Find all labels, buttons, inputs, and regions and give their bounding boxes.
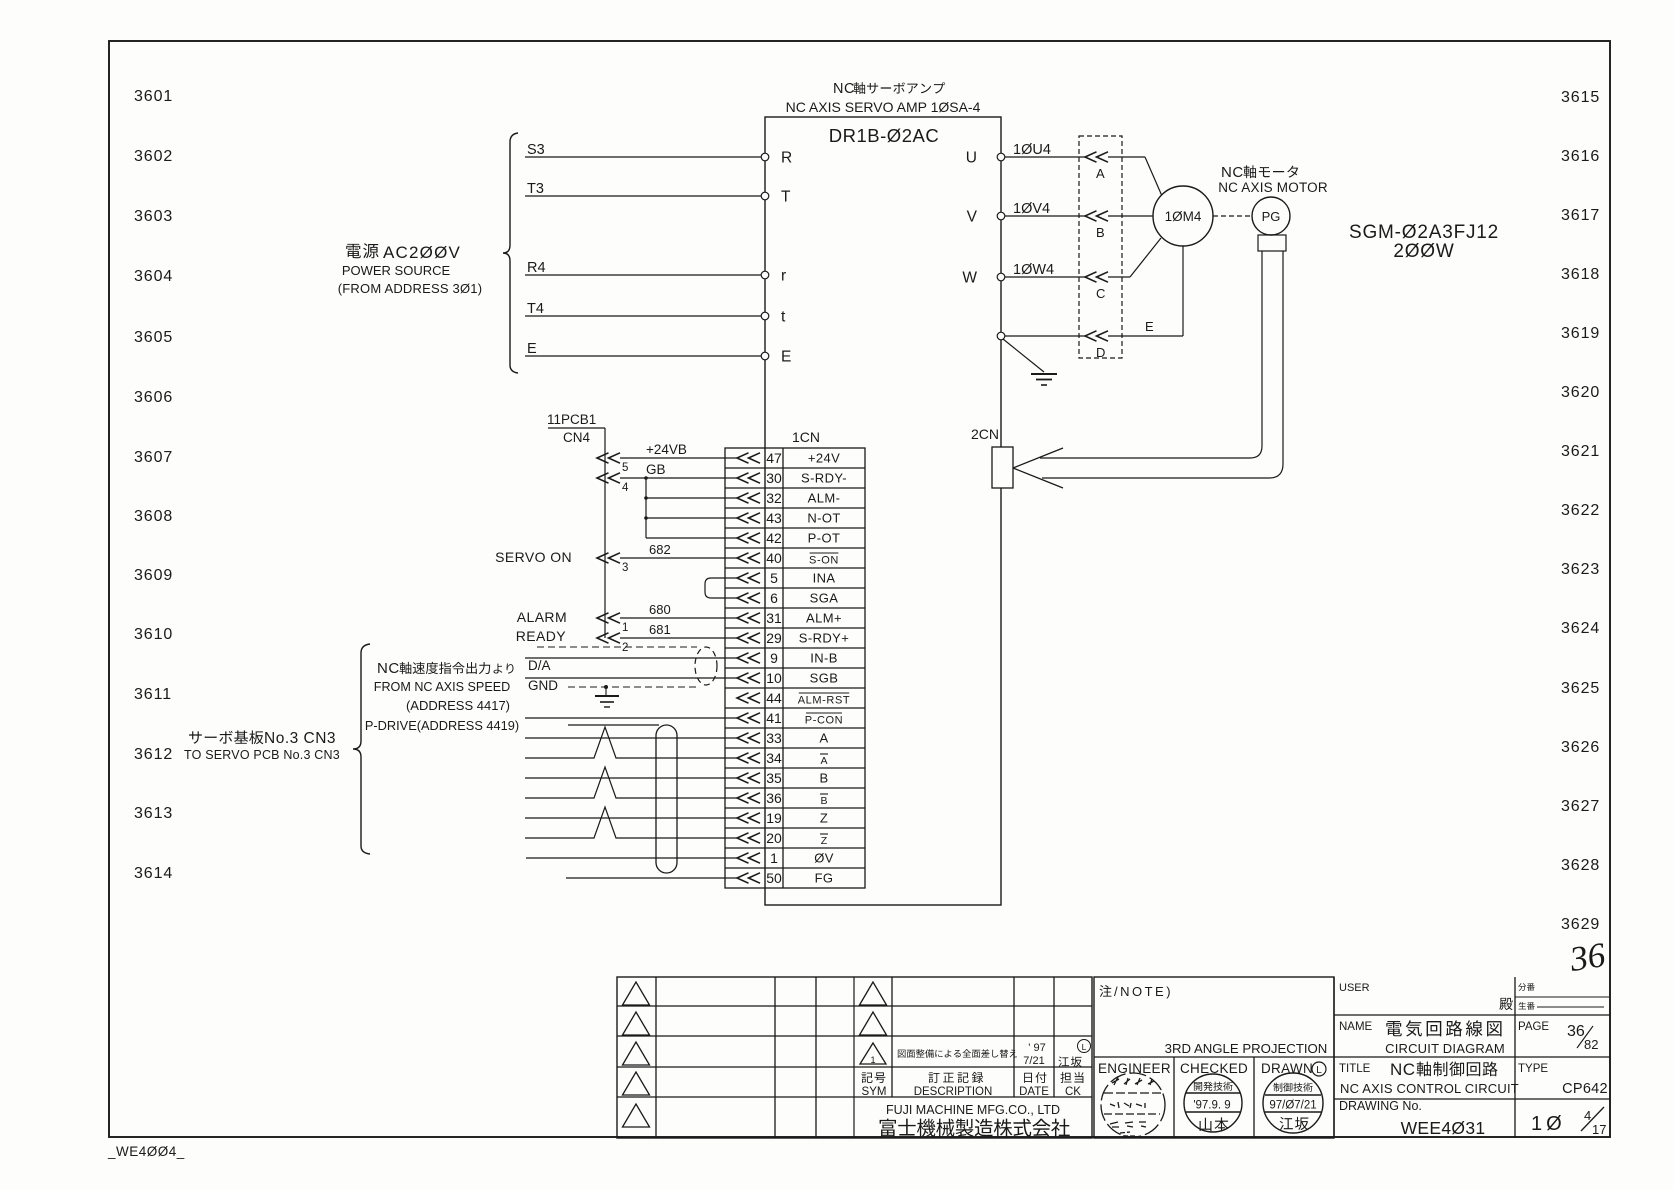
wire R4 to amp <box>525 274 761 276</box>
svg-text:ALM-: ALM- <box>808 491 841 506</box>
svg-text:t: t <box>781 309 786 326</box>
svg-text:'97.9. 9: '97.9. 9 <box>1193 1100 1230 1112</box>
revision triangle L2 <box>623 1012 650 1035</box>
svg-text:7/21: 7/21 <box>1023 1055 1044 1067</box>
ground (amp earth) <box>1003 339 1044 372</box>
svg-text:682: 682 <box>649 542 671 557</box>
svg-text:17: 17 <box>1592 1122 1606 1137</box>
svg-text:DESCRIPTION: DESCRIPTION <box>914 1086 993 1098</box>
wire T3 to amp <box>525 195 761 197</box>
svg-text:42: 42 <box>766 530 782 546</box>
wire 10W4 (W phase) <box>1005 276 1085 278</box>
CN4 pin 3 arrow (682) <box>597 553 620 563</box>
wire to pin 32 ALM- <box>646 497 737 499</box>
svg-text:4: 4 <box>622 482 629 494</box>
svg-text:3628: 3628 <box>1561 857 1600 874</box>
svg-text:ALM-RST: ALM-RST <box>798 695 850 707</box>
company name Japanese <box>880 1119 896 1137</box>
header CK column <box>1060 1072 1071 1083</box>
svg-text:1Ø: 1Ø <box>1531 1113 1566 1135</box>
revision triangle L3 <box>623 1042 650 1065</box>
svg-text:V: V <box>967 209 978 226</box>
svg-text:3604: 3604 <box>134 268 173 285</box>
wire 0V to pin 1 <box>526 857 737 859</box>
revision 1 entry: warning triangle <box>860 1043 886 1064</box>
svg-text:5: 5 <box>622 462 628 474</box>
1CN pin 6 SGA <box>737 593 760 603</box>
revision triangle L1 <box>623 982 650 1005</box>
svg-text:Z: Z <box>821 835 828 847</box>
svg-text:19: 19 <box>766 810 782 826</box>
svg-text:1ØM4: 1ØM4 <box>1165 209 1202 224</box>
1CN pin 32 ALM- <box>737 493 760 503</box>
svg-text:B: B <box>820 795 827 807</box>
svg-text:36: 36 <box>1566 935 1608 979</box>
svg-text:NAME: NAME <box>1339 1021 1373 1033</box>
1CN pin 34 A (active low) <box>737 753 760 763</box>
svg-text:5: 5 <box>770 570 778 586</box>
terminal strip A-D (dashed box) <box>1079 136 1122 358</box>
label servo board No.3 CN3 (Japanese) <box>189 731 202 743</box>
svg-text:SGA: SGA <box>810 591 839 606</box>
svg-text:3626: 3626 <box>1561 739 1600 756</box>
svg-text:CK: CK <box>1065 1086 1081 1098</box>
svg-text:2CN: 2CN <box>971 426 999 442</box>
motor terminal C arrow <box>1085 272 1108 282</box>
svg-text:31: 31 <box>766 610 782 626</box>
revision 1 CK stamp <box>1078 1040 1091 1053</box>
svg-text:GB: GB <box>646 462 666 477</box>
svg-text:USER: USER <box>1339 982 1370 994</box>
svg-text:S-ON: S-ON <box>809 555 839 567</box>
svg-text:FROM NC AXIS SPEED: FROM NC AXIS SPEED <box>374 680 510 694</box>
pin r (amp input) <box>761 271 769 279</box>
svg-text:IN-B: IN-B <box>810 651 838 666</box>
svg-text:+24V: +24V <box>808 451 840 466</box>
svg-text:TYPE: TYPE <box>1518 1063 1548 1075</box>
svg-text:3622: 3622 <box>1561 502 1600 519</box>
svg-text:(ADDRESS 4417): (ADDRESS 4417) <box>406 698 510 713</box>
svg-text:SERVO ON: SERVO ON <box>495 549 572 565</box>
svg-text:3608: 3608 <box>134 508 173 525</box>
svg-text:3609: 3609 <box>134 567 173 584</box>
wire 682 SERVO ON (pin 40) <box>620 557 737 559</box>
svg-text:1: 1 <box>622 622 628 634</box>
ground (shield) <box>604 685 608 689</box>
wire 10V4 (V phase) <box>1005 215 1085 217</box>
motor terminal A arrow <box>1085 152 1108 162</box>
svg-text:E: E <box>781 349 791 366</box>
svg-text:3602: 3602 <box>134 148 173 165</box>
wire to pin 10 SGB <box>525 677 737 679</box>
svg-text:43: 43 <box>766 510 782 526</box>
svg-text:POWER SOURCE: POWER SOURCE <box>342 263 451 278</box>
wire /B to pin 36 (twisted) <box>525 767 737 798</box>
svg-text:P-DRIVE(ADDRESS 4419): P-DRIVE(ADDRESS 4419) <box>365 718 519 733</box>
svg-text:30: 30 <box>766 470 782 486</box>
wire 681 READY (pin 29) <box>620 637 737 639</box>
svg-text:T4: T4 <box>527 301 544 317</box>
wire B to pin 35 <box>525 777 737 779</box>
svg-text:L: L <box>1316 1065 1322 1076</box>
svg-text:3624: 3624 <box>1561 620 1600 637</box>
svg-text:11PCB1: 11PCB1 <box>547 412 596 427</box>
pin W (amp output) <box>997 273 1005 281</box>
1CN pin 44 ALM-RST (active low) <box>737 693 760 703</box>
1CN pin 31 ALM+ <box>737 613 760 623</box>
svg-text:B: B <box>1096 225 1105 240</box>
svg-text:/NOTE): /NOTE) <box>1114 984 1173 999</box>
svg-text:ALARM: ALARM <box>517 609 567 625</box>
svg-text:NC AXIS MOTOR: NC AXIS MOTOR <box>1218 180 1328 195</box>
svg-text:TO SERVO PCB No.3 CN3: TO SERVO PCB No.3 CN3 <box>184 748 340 762</box>
wire 680 ALARM (pin 31) <box>620 617 737 619</box>
CN4 pin 4 arrow (GB) <box>597 473 620 483</box>
1CN pin 42 P-OT <box>737 533 760 543</box>
dashed shaft link motor to encoder <box>1213 215 1251 217</box>
svg-text:3620: 3620 <box>1561 384 1600 401</box>
info box frame <box>1333 977 1335 1138</box>
svg-text:A: A <box>1096 166 1105 181</box>
svg-text:41: 41 <box>766 710 782 726</box>
svg-text:C: C <box>1096 286 1105 301</box>
1CN pin 10 SGB <box>737 673 760 683</box>
1CN pin 41 P-CON (active low) <box>737 713 760 723</box>
servo amplifier box DR1B-02AC <box>765 117 1001 905</box>
wire to pin 43 N-OT <box>646 517 737 519</box>
svg-text:680: 680 <box>649 602 671 617</box>
svg-text:47: 47 <box>766 450 782 466</box>
svg-text:r: r <box>781 268 786 285</box>
svg-text:READY: READY <box>516 628 566 644</box>
svg-text:Z: Z <box>820 811 828 826</box>
pin R (amp input) <box>761 153 769 161</box>
svg-text:GND: GND <box>528 678 558 693</box>
svg-text:29: 29 <box>766 630 782 646</box>
pin E (amp earth output) <box>997 332 1005 340</box>
circled L mark <box>1312 1062 1326 1076</box>
1CN pin 35 B <box>737 773 760 783</box>
wire /Z to pin 20 (twisted) <box>525 807 737 838</box>
svg-text:N-OT: N-OT <box>807 511 840 526</box>
svg-text:681: 681 <box>649 622 671 637</box>
svg-text:AC2ØØV: AC2ØØV <box>383 243 461 262</box>
svg-text:NC: NC <box>833 81 855 97</box>
svg-text:1ØV4: 1ØV4 <box>1013 201 1050 217</box>
wire E to amp <box>525 355 761 357</box>
1CN pin 36 B (active low) <box>737 793 760 803</box>
svg-text:1: 1 <box>770 850 778 866</box>
svg-text:NC AXIS SERVO AMP 1ØSA-4: NC AXIS SERVO AMP 1ØSA-4 <box>786 99 981 115</box>
svg-text:CP642: CP642 <box>1562 1081 1608 1097</box>
pin t (amp input) <box>761 312 769 320</box>
svg-text:3612: 3612 <box>134 746 173 763</box>
svg-text:DATE: DATE <box>1019 1086 1049 1098</box>
svg-text:L: L <box>1082 1042 1087 1052</box>
svg-text:(FROM ADDRESS 3Ø1): (FROM ADDRESS 3Ø1) <box>338 281 482 296</box>
svg-text:ALM+: ALM+ <box>806 611 842 626</box>
svg-text:NC: NC <box>1390 1060 1416 1079</box>
svg-text:S-RDY+: S-RDY+ <box>799 631 849 646</box>
svg-text:E: E <box>527 341 537 357</box>
cable shield oval <box>656 725 677 873</box>
jumper pins 5-6 (INA-SGA) <box>705 578 737 598</box>
pin T (amp input) <box>761 192 769 200</box>
shield ring (dashed ellipse) <box>695 647 717 685</box>
1CN pin 19 Z <box>737 813 760 823</box>
header SYM column <box>861 1072 872 1083</box>
revision table frame <box>617 977 1092 1138</box>
svg-text:E: E <box>1145 319 1154 334</box>
stamp ENGINEER (handwritten) <box>1101 1073 1165 1137</box>
svg-text:97/Ø7/21: 97/Ø7/21 <box>1269 1100 1316 1112</box>
cable PG to 2CN (outer) <box>1042 251 1283 478</box>
svg-text:3: 3 <box>622 562 628 574</box>
svg-text:36: 36 <box>1567 1023 1585 1040</box>
1CN pin 43 N-OT <box>737 513 760 523</box>
note box <box>1094 977 1334 1138</box>
svg-text:32: 32 <box>766 490 782 506</box>
svg-text:3614: 3614 <box>134 865 173 882</box>
shield wire (dashed) of D/A pair <box>537 646 697 648</box>
wire D/A to pin 9 IN-B <box>525 657 737 659</box>
svg-text:S-RDY-: S-RDY- <box>801 471 847 486</box>
svg-text:ENGINEER: ENGINEER <box>1098 1061 1171 1076</box>
stamp section dividers <box>1173 1057 1175 1138</box>
wire /A to pin 34 (twisted) <box>525 727 737 758</box>
svg-text:TITLE: TITLE <box>1339 1063 1371 1075</box>
CN4 bus line <box>604 428 606 638</box>
label 注/NOTE) <box>1099 985 1111 997</box>
svg-text:35: 35 <box>766 770 782 786</box>
shield drain wire <box>568 724 659 726</box>
wire A to pin 33 <box>525 737 737 739</box>
power source brace <box>503 133 518 373</box>
svg-text:B: B <box>819 771 828 786</box>
svg-text:D/A: D/A <box>528 658 551 673</box>
svg-text:50: 50 <box>766 870 782 886</box>
header DESCRIPTION column <box>928 1072 939 1083</box>
svg-text:3627: 3627 <box>1561 798 1600 815</box>
svg-text:6: 6 <box>770 590 778 606</box>
1CN pin 20 Z (active low) <box>737 833 760 843</box>
revision triangle L5 <box>623 1104 650 1127</box>
wire T4 to amp <box>525 315 761 317</box>
handwritten page number 36 <box>1566 935 1608 979</box>
svg-text:D: D <box>1096 345 1105 360</box>
svg-text:3616: 3616 <box>1561 148 1600 165</box>
cable PG to 2CN (inner) <box>1040 251 1262 458</box>
svg-text:FUJI MACHINE MFG.CO., LTD: FUJI MACHINE MFG.CO., LTD <box>886 1103 1060 1117</box>
svg-text:3619: 3619 <box>1561 325 1600 342</box>
svg-text:36: 36 <box>766 790 782 806</box>
revision triangle L4 <box>623 1072 650 1095</box>
svg-text:_WE4ØØ4_: _WE4ØØ4_ <box>107 1144 185 1159</box>
svg-text:R4: R4 <box>527 260 546 276</box>
1CN pin 40 S-ON (active low) <box>737 553 760 563</box>
svg-text:3603: 3603 <box>134 208 173 225</box>
1CN pin 29 S-RDY+ <box>737 633 760 643</box>
CN4 pin 5 arrow (+24VB) <box>597 453 620 463</box>
svg-text:DRAWING No.: DRAWING No. <box>1339 1099 1422 1113</box>
svg-text:DR1B-Ø2AC: DR1B-Ø2AC <box>829 125 939 146</box>
pin E (amp input) <box>761 352 769 360</box>
1CN pin 1 ØV <box>737 853 760 863</box>
svg-text:U: U <box>966 150 977 167</box>
svg-text:NC: NC <box>1221 164 1244 181</box>
svg-text:34: 34 <box>766 750 782 766</box>
svg-text:10: 10 <box>766 670 782 686</box>
svg-text:3605: 3605 <box>134 329 173 346</box>
svg-text:1ØU4: 1ØU4 <box>1013 142 1051 158</box>
wire GB (pin30) <box>620 477 737 479</box>
svg-text:+24VB: +24VB <box>646 442 687 457</box>
wire +24VB (pin47) <box>620 457 737 459</box>
svg-text:SGB: SGB <box>810 671 839 686</box>
svg-text:PG: PG <box>1262 209 1281 224</box>
svg-text:3601: 3601 <box>134 88 173 105</box>
1CN pin 30 S-RDY- <box>737 473 760 483</box>
svg-text:3RD ANGLE PROJECTION: 3RD ANGLE PROJECTION <box>1165 1041 1328 1056</box>
svg-text:ØV: ØV <box>814 851 834 866</box>
stamp DRAWN <box>1263 1073 1323 1133</box>
svg-text:3611: 3611 <box>134 686 172 703</box>
svg-text:2: 2 <box>622 642 628 654</box>
CN4 pin 2 arrow (681) <box>597 633 620 643</box>
CN4 pin 1 arrow (680) <box>597 613 620 623</box>
svg-text:WEE4Ø31: WEE4Ø31 <box>1401 1118 1486 1138</box>
1CN pin 33 A <box>737 733 760 743</box>
svg-text:3629: 3629 <box>1561 916 1600 933</box>
cell 生番 <box>1518 1002 1526 1010</box>
svg-text:3625: 3625 <box>1561 680 1600 697</box>
wire E (motor earth) <box>1005 335 1085 337</box>
svg-text:CN4: CN4 <box>563 430 590 445</box>
svg-text:1CN: 1CN <box>792 429 820 445</box>
svg-text:INA: INA <box>813 571 836 586</box>
arrow into 2CN <box>1013 448 1063 468</box>
svg-text:PAGE: PAGE <box>1518 1021 1549 1033</box>
svg-text:' 97: ' 97 <box>1028 1042 1045 1054</box>
encoder flange <box>1258 235 1286 251</box>
svg-text:9: 9 <box>770 650 778 666</box>
svg-text:No.3 CN3: No.3 CN3 <box>264 730 336 747</box>
svg-text:SGM-Ø2A3FJ12: SGM-Ø2A3FJ12 <box>1349 222 1499 243</box>
encoder PG <box>1252 197 1290 235</box>
motor terminal B arrow <box>1085 211 1108 221</box>
svg-text:R: R <box>781 150 792 167</box>
svg-text:NC AXIS CONTROL CIRCUIT: NC AXIS CONTROL CIRCUIT <box>1340 1081 1519 1096</box>
svg-text:33: 33 <box>766 730 782 746</box>
svg-text:NC: NC <box>377 660 400 677</box>
svg-text:T3: T3 <box>527 181 544 197</box>
pin U (amp output) <box>997 153 1005 161</box>
svg-text:P-OT: P-OT <box>808 531 841 546</box>
wire to pin 42 P-OT <box>646 537 737 539</box>
svg-text:1: 1 <box>870 1055 875 1065</box>
revision triangle M1 <box>860 982 887 1005</box>
1CN pin 5 INA <box>737 573 760 583</box>
svg-text:W: W <box>962 270 977 287</box>
label 電源 AC200V <box>346 244 361 258</box>
svg-text:3623: 3623 <box>1561 561 1600 578</box>
svg-text:82: 82 <box>1584 1037 1598 1052</box>
motor 10M4 <box>1153 186 1213 246</box>
shield GND wire (dashed) <box>568 686 700 688</box>
svg-text:3613: 3613 <box>134 805 173 822</box>
svg-text:CIRCUIT DIAGRAM: CIRCUIT DIAGRAM <box>1385 1041 1505 1056</box>
svg-text:3615: 3615 <box>1561 89 1600 106</box>
stamp CHECKED <box>1184 1074 1242 1132</box>
svg-text:SYM: SYM <box>862 1086 887 1098</box>
svg-text:44: 44 <box>766 690 782 706</box>
wire Z to pin 19 <box>525 817 737 819</box>
brace to servo PCB No.3 CN3 <box>353 644 370 854</box>
svg-text:1ØW4: 1ØW4 <box>1013 262 1054 278</box>
wire S3 to amp <box>525 156 761 158</box>
svg-text:A: A <box>819 731 828 746</box>
motor terminal D arrow <box>1085 331 1108 341</box>
label 殿 <box>1499 998 1512 1010</box>
svg-text:3606: 3606 <box>134 389 173 406</box>
name 電気回路線図 <box>1386 1021 1402 1036</box>
svg-text:2ØØW: 2ØØW <box>1393 241 1454 262</box>
svg-text:P-CON: P-CON <box>805 715 843 727</box>
svg-text:20: 20 <box>766 830 782 846</box>
svg-text:A: A <box>820 755 827 767</box>
1CN pin 50 FG <box>737 873 760 883</box>
svg-text:T: T <box>781 189 791 206</box>
wire 10U4 (U phase) <box>1005 156 1085 158</box>
svg-text:FG: FG <box>815 871 834 886</box>
wire P-DRIVE to pin 41 P-CON <box>525 717 737 719</box>
svg-text:3618: 3618 <box>1561 266 1600 283</box>
svg-text:3617: 3617 <box>1561 207 1600 224</box>
header DATE column <box>1024 1073 1032 1083</box>
svg-text:S3: S3 <box>527 142 545 158</box>
1CN pin 9 IN-B <box>737 653 760 663</box>
revision 1 description (Japanese) <box>898 1050 906 1058</box>
svg-text:3607: 3607 <box>134 449 173 466</box>
revision triangle M2 <box>860 1012 887 1035</box>
svg-text:3621: 3621 <box>1561 443 1600 460</box>
cell 分番 <box>1518 983 1526 991</box>
wire FG to pin 50 <box>566 877 737 879</box>
pin V (amp output) <box>997 212 1005 220</box>
1CN pin 47 +24V <box>737 453 760 463</box>
svg-text:3610: 3610 <box>134 626 173 643</box>
GB branch bus <box>645 478 647 538</box>
svg-text:40: 40 <box>766 550 782 566</box>
